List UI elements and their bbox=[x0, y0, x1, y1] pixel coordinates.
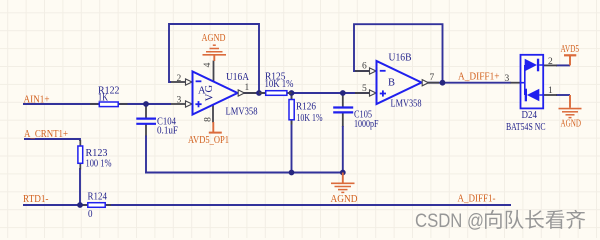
svg-text:R126: R126 bbox=[296, 101, 316, 112]
svg-text:D24: D24 bbox=[522, 110, 538, 121]
pin R122.1 bbox=[90, 103, 98, 105]
junction C105/AGND bbox=[340, 170, 346, 176]
resistor R122 bbox=[99, 102, 118, 107]
input arrow U16A pin2 bbox=[186, 79, 193, 85]
D24 inner wiring bbox=[521, 65, 544, 95]
pin D24.2 bbox=[543, 64, 557, 66]
svg-text:2: 2 bbox=[177, 74, 182, 84]
wire R123 to RTD1- net bbox=[79, 168, 81, 206]
wire U16A feedback loop bbox=[169, 24, 259, 93]
output arrow U16A pin1 bbox=[238, 90, 244, 96]
svg-text:G: G bbox=[204, 84, 215, 92]
junction R125/R126 bbox=[289, 90, 295, 96]
pin U16A.1 bbox=[244, 92, 256, 94]
op-amp U16B bbox=[377, 61, 422, 104]
pin C105.1 bbox=[342, 94, 344, 107]
wire U16A output to R125 bbox=[243, 92, 266, 94]
watermark glyph 齐 bbox=[566, 210, 585, 229]
diode D24 top element bbox=[525, 59, 537, 72]
wire A_CRNT1+ down to R123 bbox=[79, 138, 81, 141]
wire R125 to U16B pin5 bbox=[287, 92, 371, 94]
svg-text:0.1uF: 0.1uF bbox=[157, 126, 178, 137]
wire D24 pin2 to AVD5 bbox=[556, 64, 570, 66]
junction U16A output/feedback bbox=[256, 90, 262, 96]
pin R126.1 bbox=[291, 96, 293, 102]
wire U16B output / A_DIFF1+ to D24 pin3 bbox=[427, 82, 511, 84]
pin R125.2 bbox=[287, 92, 292, 94]
plus sign U16A bbox=[195, 103, 201, 105]
pin C104.2 bbox=[145, 125, 147, 137]
resistor R124 bbox=[88, 203, 105, 208]
svg-text:4: 4 bbox=[203, 62, 213, 67]
svg-text:AGND: AGND bbox=[331, 194, 358, 205]
watermark glyph 长 bbox=[525, 210, 544, 229]
svg-text:A_CRNT1+: A_CRNT1+ bbox=[24, 129, 68, 140]
wire ground bus bbox=[145, 172, 343, 174]
minus sign U16B bbox=[380, 70, 386, 72]
svg-text:AVD5_OP1: AVD5_OP1 bbox=[188, 135, 229, 146]
junction AIN1+/C104 bbox=[143, 101, 149, 107]
svg-text:6: 6 bbox=[362, 61, 367, 71]
wire C105 bottom to ground bus bbox=[342, 126, 344, 173]
svg-text:LMV358: LMV358 bbox=[226, 106, 258, 117]
svg-text:2: 2 bbox=[548, 57, 553, 67]
pin R124.1 bbox=[83, 204, 89, 206]
svg-text:100 1%: 100 1% bbox=[86, 158, 112, 169]
svg-text:LMV358: LMV358 bbox=[391, 99, 422, 110]
resistor R123 bbox=[78, 146, 83, 163]
svg-text:3: 3 bbox=[177, 96, 182, 106]
svg-text:CSDN @: CSDN @ bbox=[415, 210, 484, 232]
wire RTD1- to R124 bbox=[23, 204, 88, 206]
svg-text:8: 8 bbox=[203, 117, 213, 122]
svg-text:U16A: U16A bbox=[226, 72, 249, 83]
pin U16A.8 bbox=[212, 105, 214, 123]
diode D24 bottom element bbox=[527, 89, 539, 102]
svg-text:0: 0 bbox=[88, 209, 93, 220]
svg-text:AGND: AGND bbox=[561, 119, 582, 130]
svg-text:R124: R124 bbox=[88, 191, 108, 202]
op-amp U16A bbox=[193, 72, 238, 115]
input arrow U16A pin3 bbox=[186, 101, 193, 107]
wire R126 bottom to ground bus bbox=[291, 119, 293, 173]
svg-text:7: 7 bbox=[430, 73, 435, 83]
wire AIN1+ net to U16A pin3 bbox=[23, 103, 171, 105]
pin C104.1 bbox=[145, 104, 147, 118]
resistor R125 bbox=[266, 91, 287, 96]
wire D24 pin1 to AGND bbox=[556, 94, 570, 96]
minus sign U16A bbox=[196, 80, 202, 82]
pin R123.1 bbox=[79, 140, 81, 147]
watermark glyph 队 bbox=[506, 210, 524, 229]
wire U16B feedback loop bbox=[354, 24, 443, 82]
pin U16A.4 bbox=[213, 61, 215, 82]
svg-text:A_DIFF1-: A_DIFF1- bbox=[458, 194, 496, 205]
svg-text:1K: 1K bbox=[98, 93, 108, 104]
svg-text:U16B: U16B bbox=[389, 53, 412, 64]
svg-text:10K 1%: 10K 1% bbox=[297, 113, 323, 124]
junction U16B output/feedback bbox=[440, 80, 446, 86]
pin R122.2 bbox=[120, 103, 128, 105]
input arrow U16B pin5 bbox=[370, 90, 377, 96]
input arrow U16B pin6 bbox=[370, 68, 377, 74]
wire R124 to A_DIFF1- net bbox=[105, 204, 511, 206]
pin D24.1 bbox=[543, 94, 557, 96]
diode D24 BAT54S bbox=[521, 55, 544, 109]
junction R123/RTD1- bbox=[77, 202, 83, 208]
pin R125.1 bbox=[259, 92, 266, 94]
junction R126/ground bus bbox=[289, 170, 295, 176]
pin U16B.6 bbox=[355, 70, 370, 72]
pin U16B.7 bbox=[428, 82, 439, 84]
svg-text:AVD5: AVD5 bbox=[561, 44, 580, 55]
resistor R126 bbox=[289, 100, 294, 120]
svg-text:BAT54S NC: BAT54S NC bbox=[506, 122, 546, 133]
watermark glyph 向 bbox=[485, 210, 502, 229]
pin U16A.3 bbox=[171, 103, 186, 105]
svg-text:AIN1+: AIN1+ bbox=[24, 94, 50, 105]
wire A_CRNT1+ horizontal bbox=[24, 138, 80, 140]
wire C104 bottom down bbox=[145, 136, 147, 173]
svg-text:1: 1 bbox=[548, 86, 553, 96]
pin U16A.2 bbox=[171, 81, 186, 83]
plus sign U16B bbox=[380, 93, 386, 95]
watermark glyph 看 bbox=[545, 210, 564, 229]
svg-text:10K 1%: 10K 1% bbox=[265, 79, 294, 90]
svg-text:1: 1 bbox=[245, 83, 250, 93]
power port AGND right bbox=[569, 95, 571, 108]
pin R123.2 bbox=[79, 163, 81, 170]
svg-text:3: 3 bbox=[505, 74, 510, 84]
junction C105 top bbox=[340, 90, 346, 96]
power port AGND below C105 bbox=[342, 173, 344, 183]
pin R124.2 bbox=[105, 204, 111, 206]
svg-text:1000pF: 1000pF bbox=[354, 119, 379, 130]
output arrow U16B pin7 bbox=[422, 80, 428, 86]
capacitor C104 bbox=[136, 117, 156, 119]
pin R126.2 bbox=[291, 119, 293, 125]
svg-text:V: V bbox=[204, 93, 215, 101]
power port AVD5_OP1 below U16A bbox=[212, 122, 214, 133]
svg-text:B: B bbox=[388, 77, 395, 88]
svg-text:AGND: AGND bbox=[202, 33, 226, 44]
wire to R126 top bbox=[291, 93, 293, 102]
pin D24.3 bbox=[511, 82, 521, 84]
svg-text:A_DIFF1+: A_DIFF1+ bbox=[458, 71, 500, 82]
pin C105.2 bbox=[342, 113, 344, 127]
pin U16B.5 bbox=[355, 92, 370, 94]
svg-text:5: 5 bbox=[362, 84, 367, 94]
svg-text:RTD1-: RTD1- bbox=[23, 194, 49, 205]
capacitor C105 bbox=[333, 106, 353, 108]
